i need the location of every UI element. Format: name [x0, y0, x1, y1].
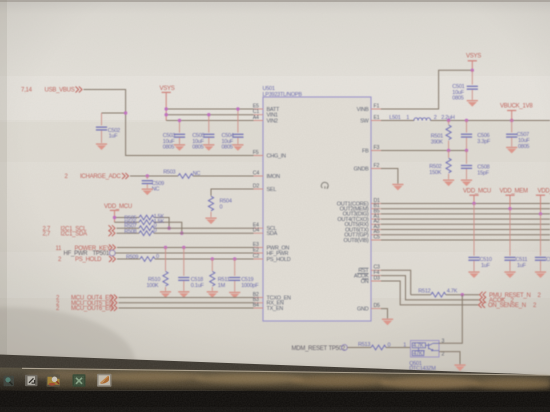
power VBUCK_1V8: [500, 104, 533, 121]
wire Q501 collector to R512 node: [439, 295, 462, 344]
wire OUT6 rail: [381, 229, 550, 231]
node C504/BATT: [236, 107, 239, 110]
resistor R506 pullup SDA: [115, 219, 182, 233]
resistor R501: [431, 121, 451, 151]
wire ON: [381, 281, 478, 305]
node C509 junction: [146, 174, 149, 177]
taskbar top highlight line: [22, 368, 550, 375]
node USB_VBUS/C502 junction: [124, 111, 127, 114]
net ICHARGE_ADC flag: [65, 173, 129, 180]
net ON_SENSE_N flag: [479, 302, 538, 309]
ground C501: [467, 100, 478, 107]
power VSYS left: [160, 86, 175, 120]
ground GNDB: [392, 184, 403, 191]
node VDD_MCU/OUT1: [472, 202, 475, 205]
wire VIN1 row: [166, 114, 253, 116]
taskbar icon 4: [73, 374, 86, 387]
pin numbers left: [253, 103, 260, 308]
taskbar band: [0, 368, 550, 392]
desktop wedge below schematic: [0, 355, 550, 377]
net MCU_OUT4_EN flag: [56, 295, 117, 302]
net MCU_OUT5_EN flag: [56, 300, 117, 307]
node R510/POWER_KEY: [164, 246, 167, 249]
power VDD_MEM: [500, 188, 529, 208]
capacitor C504: [222, 109, 244, 151]
resistor R505 pullup SCL: [115, 214, 170, 228]
resistor R503: [163, 170, 200, 179]
capacitor C508: [461, 151, 490, 180]
ground C508: [461, 180, 472, 187]
screen bottom dark fade: [0, 349, 550, 376]
wire OUT8 rail: [381, 239, 550, 241]
wire SCL + resistor R507: [117, 223, 254, 231]
node VDD/R505: [113, 216, 116, 219]
ground R504: [205, 218, 216, 225]
net I2C1_SDA flag: [43, 230, 116, 237]
node C505/VIN1: [207, 113, 210, 116]
capacitor C512: [535, 214, 550, 271]
power VDD_DIG: [536, 188, 550, 214]
pin stubs right of U501: [371, 109, 381, 309]
wire R503 to IMON: [193, 175, 254, 177]
node SW/R501: [447, 119, 450, 122]
wire OUT7 rail: [381, 234, 550, 236]
ground C504: [232, 144, 243, 151]
ground C503: [174, 144, 185, 151]
pin numbers right: [374, 103, 381, 309]
node R505/SCL: [167, 227, 170, 230]
node C518/POWER_KEY: [182, 246, 185, 249]
net I2C1_SCL flag: [43, 225, 116, 232]
capacitor C511: [504, 209, 527, 272]
net ACOK flag: [480, 297, 515, 304]
wire OUT2 rail: [381, 208, 550, 210]
power VDD_MCU left: [104, 204, 132, 222]
ground C510: [468, 271, 479, 278]
ground R510: [160, 291, 171, 298]
ground C519: [229, 292, 240, 299]
wire BATT row: [166, 108, 253, 110]
wire SW rail: [431, 120, 550, 122]
wire Q501 emitter to ground: [439, 352, 460, 365]
ground C518: [178, 291, 189, 298]
wire USB_VBUS to CHG_IN: [84, 90, 254, 156]
capacitor C519: [229, 259, 259, 292]
capacitor C509: [142, 176, 164, 193]
wire C502 branch: [102, 112, 126, 114]
net USB_VBUS flag: [21, 87, 82, 94]
node FB/C508: [465, 149, 468, 152]
capacitor C518: [178, 248, 204, 292]
wire PS_HOLD + resistor R509: [117, 254, 254, 261]
node R512/Q501 collector: [461, 293, 464, 296]
pin names left: [267, 107, 292, 312]
wire OUT5 rail: [381, 223, 550, 225]
resistor R502: [429, 151, 451, 180]
resistor R512: [411, 289, 479, 298]
wire OUT4 rail: [381, 218, 550, 220]
ground C502: [96, 143, 107, 150]
op-amp U1 body: IC U501 LP3923TL/NOPB: [263, 86, 372, 321]
node R511/PS_HOLD: [211, 257, 214, 260]
node SW/C506: [465, 119, 468, 122]
power VDD_MCU right: [463, 188, 491, 203]
wire SDA + resistor R508: [117, 228, 254, 236]
net MCU_OUT6_EN flag: [56, 305, 117, 312]
capacitor C502: [96, 113, 120, 143]
wire RST: [381, 270, 411, 294]
transistor Q501 DTC143ZM: [409, 341, 439, 372]
ground C512: [535, 271, 546, 278]
ground D5: [382, 319, 393, 326]
capacitor C505: [192, 115, 214, 151]
resistor R511: [210, 259, 230, 291]
ground C511: [504, 271, 515, 278]
net PMU_RESET_N flag: [480, 292, 542, 299]
capacitor C501: [452, 70, 478, 101]
resistor R513: [347, 342, 410, 350]
wire MCU_OUT5_EN: [119, 302, 254, 304]
wire GNDB: [381, 169, 398, 184]
node VDD_MEM/OUT2: [508, 207, 511, 210]
resistor R504: [208, 196, 231, 217]
wire VIN2 row: [166, 120, 253, 122]
taskbar icon 1: [4, 376, 15, 387]
node VSYS/BATT: [165, 107, 168, 110]
inductor L501: [381, 115, 455, 121]
taskbar icon 2: [25, 375, 38, 387]
taskbar icon 5: [97, 374, 112, 387]
wire OUT1 rail: [381, 203, 550, 205]
wire SEL to R504: [211, 189, 254, 196]
net PS_HOLD flag: [58, 256, 116, 263]
capacitor C506: [461, 121, 491, 151]
wire ACOK: [381, 276, 479, 300]
bezel bottom: [0, 391, 550, 412]
pin stubs left of U501: [254, 109, 264, 308]
taskbar icon 3: [47, 374, 61, 387]
wire FB rail: [381, 150, 467, 152]
power VSYS top right: [466, 54, 481, 71]
node VSYS/VIN1: [165, 113, 168, 116]
node VSYS/C501: [471, 69, 474, 72]
pin names right: [337, 107, 370, 313]
ground R502: [443, 180, 454, 187]
wire VINB to VSYS: [381, 70, 472, 109]
wire OUT3 rail: [381, 213, 550, 215]
wire MCU_OUT6_EN: [119, 307, 254, 309]
wire ICHARGE_ADC to R503: [130, 175, 178, 177]
ground C505: [203, 144, 214, 151]
cursor: [321, 182, 328, 188]
bottom-left corner shadow: [0, 307, 135, 412]
capacitor C507: [506, 121, 530, 150]
node C519/PS_HOLD: [233, 257, 236, 260]
ground R511: [207, 291, 218, 298]
node SW/VBUCK: [510, 119, 513, 122]
capacitor C510: [468, 204, 491, 272]
node FB/R502: [447, 149, 450, 152]
ground Q501 emitter: [454, 364, 465, 371]
net POWER_KEY flag: [56, 245, 116, 252]
node VDD_DIG/OUT3: [539, 212, 542, 215]
testpoint TP502: [292, 345, 348, 352]
wire HF_PWR row: [115, 252, 253, 254]
capacitor C503: [163, 121, 185, 151]
ground C509: [142, 189, 153, 196]
wire MCU_OUT4_EN: [119, 297, 254, 299]
testpoint TP501: [64, 250, 116, 257]
resistor R510: [147, 248, 169, 292]
node R506/SDA: [180, 232, 183, 235]
ground C507: [506, 147, 517, 154]
overlines RST ACOK ON: [357, 268, 369, 279]
node C503/VIN2: [178, 119, 181, 122]
wire POWER_KEY row: [117, 247, 254, 249]
taskbar mottled patches: [55, 370, 550, 390]
wire GND pin: [381, 309, 388, 319]
